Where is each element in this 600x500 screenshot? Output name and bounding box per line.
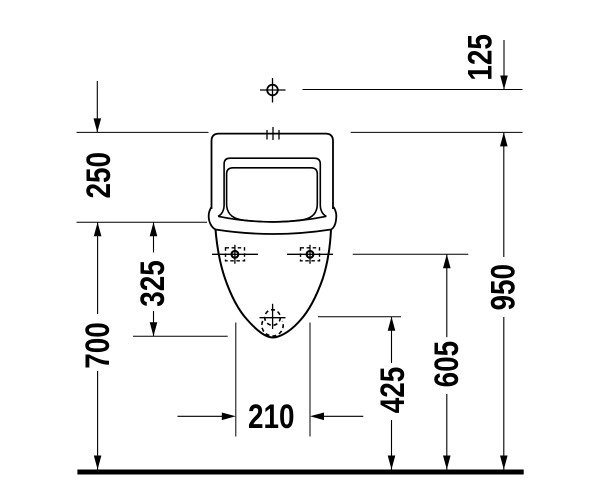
node baseline floor line [77,470,523,475]
arrowhead dim 950 down at baseline [500,456,508,470]
svg-text:425: 425 [373,367,411,414]
arrowhead dim 325 up at y=222.3 [150,222,158,236]
urinal basin opening [227,168,318,222]
urinal collar rim outer [209,207,337,234]
wire dim 950 shaft lower [503,317,505,470]
wire extension line y=336.3 for dim 325 [133,335,228,337]
wire dim 125 shaft [503,40,505,90]
svg-text:125: 125 [461,34,499,81]
svg-text:325: 325 [133,260,171,307]
wire extension line y=222.3 left [77,221,208,223]
wire dim 210 right shaft [324,415,363,417]
wire dim 210 left shaft [178,415,223,417]
urinal bowl outline [216,230,332,338]
svg-text:210: 210 [248,397,295,435]
wire dim 325 shaft lower [153,311,155,336]
mounting hole right [287,245,333,264]
arrowhead dim 605 down at baseline [443,456,451,470]
arrowhead dim 700 up at y=222.3 [94,222,102,236]
arrowhead dim 210 right-pointing at x=235.8 [222,413,236,421]
svg-text:950: 950 [484,264,522,311]
urinal inner rim edge [218,158,326,216]
wire dim 425 shaft upper [391,317,393,363]
wall water inlet crosshair symbol [260,78,286,103]
wire extension line y=254.2 for dim 605 [353,253,469,255]
drain outlet dashed circle [260,304,286,336]
wire dim 605 shaft upper [446,254,448,337]
arrowhead dim 605 up at y=254.2 [443,254,451,268]
wire extension line y=132.4 right segment [351,131,523,133]
arrowhead dim 125 down at y=89.5 [500,76,508,90]
arrowhead dim 250 down at y=132.4 [94,118,102,132]
svg-text:700: 700 [78,322,116,369]
water inlet tick marks on top edge [267,127,279,140]
wire dim 700 shaft upper [97,222,99,314]
arrowhead dim 425 up at y=316.8 [388,317,396,331]
mounting hole left [212,245,258,264]
wire dim 250 top outside shaft [96,81,98,132]
wire dim 325 shaft upper [153,222,155,252]
arrowhead dim 325 down at y=336.3 [150,322,158,336]
urinal outer shell [212,134,334,209]
arrowhead dim 425 down at baseline [388,456,396,470]
arrowhead dim 950 up at y=132.4 [500,132,508,146]
svg-text:605: 605 [427,341,465,388]
wire dim 425 shaft lower [391,420,393,470]
arrowhead dim 210 left-pointing at x=310 [310,413,324,421]
wire vertical extension x=310 for dim 210 right [309,323,311,437]
svg-text:250: 250 [80,152,118,199]
wire dim 950 shaft upper [503,132,505,257]
wire dim 605 shaft lower [446,394,448,470]
arrowhead dim 700 down at baseline [94,456,102,470]
wire extension line y=316.8 for dim 425 [318,316,401,318]
wire extension line y=89.5 right of inlet crosshair [303,89,523,91]
wire vertical extension x=235.8 for dim 210 left [235,323,237,437]
wire extension line y=132.4 left segment [77,131,209,133]
urinal rim front edge curve [218,216,326,222]
wire dim 700 shaft lower [97,371,99,470]
